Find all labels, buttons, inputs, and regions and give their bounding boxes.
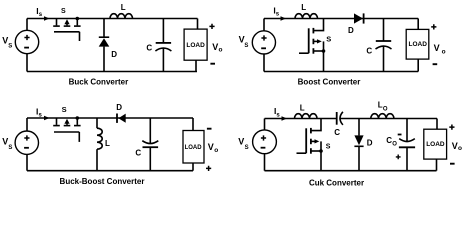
wire left rail buck: [26, 19, 28, 31]
capacitor C buck-boost: [149, 118, 151, 144]
wire below source buck: [26, 54, 28, 72]
plus cuk load: [449, 125, 454, 130]
load box cuk: [436, 119, 438, 130]
plus buck-boost load: [206, 166, 211, 171]
svg-text:O: O: [383, 106, 388, 112]
svg-text:LOAD: LOAD: [186, 42, 205, 49]
inductor L buck: [110, 14, 133, 19]
svg-text:V: V: [212, 42, 218, 52]
capacitor Co cuk: [406, 119, 408, 142]
svg-text:S: S: [8, 43, 12, 49]
source Vs buck-boost: [15, 131, 38, 154]
svg-text:D: D: [116, 103, 122, 112]
diode D boost: [354, 13, 363, 23]
capacitor C boost: [383, 19, 385, 42]
wire top rail cuk left part: [265, 118, 337, 120]
svg-text:L: L: [121, 3, 126, 12]
svg-text:Boost Converter: Boost Converter: [298, 77, 361, 86]
source Vs boost: [252, 31, 275, 54]
svg-text:C: C: [146, 44, 152, 53]
wire below source cuk: [264, 154, 266, 171]
svg-text:o: o: [458, 145, 462, 152]
svg-text:o: o: [219, 47, 223, 54]
source Vs cuk: [253, 130, 277, 154]
transistor S cuk: [311, 119, 321, 131]
svg-text:V: V: [208, 142, 214, 152]
svg-text:V: V: [434, 43, 440, 53]
wire bottom rail buck: [27, 71, 197, 73]
svg-text:Cuk Converter: Cuk Converter: [309, 178, 364, 187]
svg-text:S: S: [326, 144, 331, 151]
load box buck: [197, 19, 199, 30]
svg-text:S: S: [8, 145, 12, 151]
capacitor C buck: [162, 19, 164, 43]
transistor S buck (switch): [56, 19, 58, 26]
plus boost load: [431, 24, 436, 29]
source Vs buck: [15, 30, 38, 53]
svg-text:Buck-Boost Converter: Buck-Boost Converter: [60, 177, 145, 186]
transistor S boost: [313, 19, 323, 31]
svg-text:o: o: [214, 147, 218, 154]
wire below source buck-boost: [26, 154, 28, 170]
plus Co cuk: [396, 155, 401, 160]
svg-text:L: L: [300, 103, 305, 112]
svg-text:LOAD: LOAD: [408, 41, 427, 48]
inductor L buck-boost (vertical): [96, 118, 98, 128]
svg-text:L: L: [105, 139, 110, 148]
svg-text:LOAD: LOAD: [185, 145, 203, 151]
svg-text:D: D: [111, 50, 117, 59]
svg-text:D: D: [367, 139, 373, 148]
wire left rail buck-boost: [26, 118, 28, 131]
svg-text:S: S: [62, 105, 67, 114]
svg-text:L: L: [301, 3, 306, 12]
wire below source boost: [263, 54, 265, 72]
plus buck load: [209, 24, 214, 29]
current arrow Is boost: [281, 16, 287, 21]
inductor Lo cuk: [371, 114, 394, 119]
wire top rail buck: [27, 18, 198, 20]
diode D buck-boost (points left): [116, 114, 118, 123]
minus buck load: [210, 63, 215, 65]
minus cuk load: [450, 163, 455, 165]
wire top rail buck-boost: [27, 117, 193, 119]
svg-text:LOAD: LOAD: [426, 141, 445, 148]
svg-text:o: o: [442, 48, 446, 55]
wire top rail cuk right part: [340, 118, 437, 120]
load box buck-boost: [192, 118, 194, 131]
inductor L boost: [295, 14, 318, 19]
svg-text:S: S: [61, 8, 66, 15]
svg-text:Buck Converter: Buck Converter: [69, 77, 129, 86]
svg-text:C: C: [135, 148, 141, 157]
svg-text:S: S: [245, 145, 249, 151]
svg-text:S: S: [326, 34, 331, 43]
inductor L cuk: [295, 114, 318, 119]
svg-text:V: V: [452, 141, 458, 151]
minus boost load: [433, 63, 438, 65]
minus Co cuk: [398, 134, 402, 136]
current arrow Is cuk: [282, 116, 288, 121]
svg-text:S: S: [244, 43, 248, 49]
wire top rail boost: [264, 18, 418, 20]
current arrow Is buck: [44, 16, 50, 21]
load box boost: [417, 19, 419, 30]
wire left rail boost: [263, 19, 265, 31]
wire left rail cuk: [264, 119, 266, 131]
svg-text:O: O: [392, 142, 397, 148]
minus buck-boost load: [207, 128, 212, 130]
wire bottom rail cuk: [265, 170, 437, 172]
svg-text:C: C: [366, 47, 372, 56]
wire bottom rail boost: [264, 71, 418, 73]
capacitor C cuk (series): [336, 112, 338, 125]
svg-text:C: C: [334, 128, 340, 137]
diode D cuk (points down): [358, 119, 360, 136]
svg-text:D: D: [348, 26, 354, 35]
current arrow Is buck-boost: [44, 116, 50, 121]
wire bottom rail buck-boost: [27, 170, 193, 172]
transistor S buck-boost (switch): [56, 118, 58, 125]
svg-text:V: V: [238, 136, 244, 146]
diode D buck: [103, 19, 105, 38]
